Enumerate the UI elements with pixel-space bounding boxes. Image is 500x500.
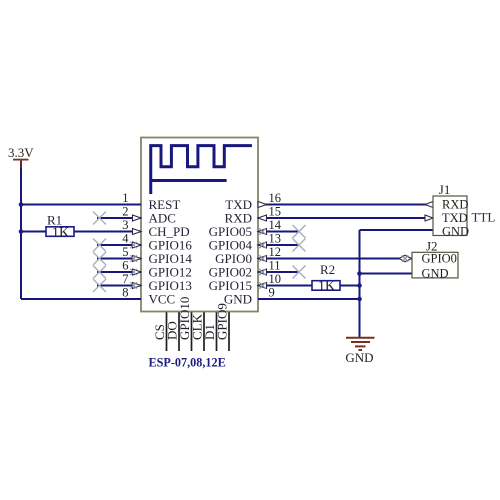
svg-text:J1: J1 [439, 182, 451, 197]
svg-text:15: 15 [269, 205, 282, 219]
svg-text:3: 3 [122, 218, 128, 232]
svg-text:GND: GND [422, 267, 449, 281]
svg-text:5: 5 [122, 245, 128, 259]
svg-text:7: 7 [122, 272, 128, 286]
svg-text:4: 4 [122, 232, 129, 246]
svg-text:8: 8 [122, 286, 128, 300]
svg-text:GPIO0: GPIO0 [422, 251, 457, 265]
svg-text:TTL: TTL [472, 210, 496, 225]
svg-text:GPIO9: GPIO9 [215, 303, 230, 340]
svg-text:6: 6 [122, 259, 128, 273]
svg-text:ESP-07,08,12E: ESP-07,08,12E [149, 356, 226, 370]
svg-text:9: 9 [269, 286, 275, 300]
svg-text:VCC: VCC [149, 292, 176, 307]
svg-text:13: 13 [269, 232, 282, 246]
svg-text:3.3V: 3.3V [8, 145, 34, 160]
svg-text:2: 2 [122, 205, 128, 219]
svg-text:16: 16 [269, 191, 282, 205]
svg-text:14: 14 [269, 218, 282, 232]
svg-text:TXD: TXD [442, 211, 468, 225]
svg-text:11: 11 [269, 259, 281, 273]
svg-text:R2: R2 [320, 262, 335, 277]
svg-text:10: 10 [269, 272, 282, 286]
svg-text:1: 1 [122, 191, 128, 205]
svg-text:GND: GND [442, 225, 469, 239]
svg-text:RXD: RXD [442, 198, 468, 212]
svg-text:1K: 1K [318, 279, 335, 294]
svg-text:12: 12 [269, 245, 282, 259]
svg-text:GND: GND [345, 350, 373, 365]
svg-text:1K: 1K [52, 225, 69, 240]
